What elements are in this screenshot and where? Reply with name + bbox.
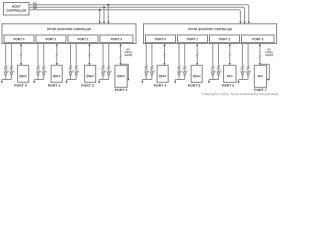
wire ground rail port 2 <box>67 79 77 81</box>
SFP module port 6 <box>224 65 236 82</box>
wire I2C bus pin port 1 <box>56 44 58 65</box>
wire SDA drop to U1 <box>103 7 105 23</box>
svg-text:CONTROL: CONTROL <box>124 54 133 57</box>
svg-text:CONTROLLER: CONTROLLER <box>6 9 26 13</box>
LED D41 <box>145 70 150 79</box>
wire I2C bus pin port 5 <box>196 44 198 65</box>
svg-text:FPC401 QUAD-PORT CONTROLLER: FPC401 QUAD-PORT CONTROLLER <box>188 27 233 31</box>
wire LED drive pin 2 port 4 <box>151 44 153 66</box>
wire LED drive pin 2 port 3 <box>108 44 110 66</box>
resistor R62 <box>217 65 219 72</box>
wire SCL bus line <box>29 5 250 24</box>
label I2C STATUS CONTROL <box>265 48 274 57</box>
wire ground rail port 7 <box>239 79 249 81</box>
resistor R51 <box>178 65 180 72</box>
QSFP module port 2 <box>85 65 96 82</box>
LED D61 <box>211 70 216 79</box>
svg-text:Copyright © 2016, Texas Instru: Copyright © 2016, Texas Instruments Inco… <box>202 92 278 96</box>
LED D72 <box>247 70 252 79</box>
port block PORT 1 of U1 <box>36 35 66 43</box>
resistor R52 <box>184 65 186 72</box>
resistor R61 <box>212 65 214 72</box>
svg-text:PORT 2: PORT 2 <box>219 37 230 41</box>
port block PORT 0 of U2 <box>146 35 176 43</box>
wire SCL drop to U1 <box>107 5 109 24</box>
resistor R22 <box>75 65 77 72</box>
svg-text:PORT 4: PORT 4 <box>154 84 167 88</box>
svg-text:PORT 2: PORT 2 <box>77 37 88 41</box>
wire INT drop to U1 <box>99 10 101 24</box>
LED D71 <box>241 70 246 79</box>
svg-text:PORT 1: PORT 1 <box>45 37 56 41</box>
svg-text:PORT 0: PORT 0 <box>14 84 27 88</box>
svg-text:PORT 2: PORT 2 <box>81 84 94 88</box>
wire LED drive pin 1 port 7 <box>241 44 243 66</box>
svg-text:QSFP: QSFP <box>193 74 201 78</box>
wire LED drive pin 1 port 2 <box>70 44 72 66</box>
junction INT node <box>99 9 101 11</box>
svg-text:PORT 1: PORT 1 <box>187 37 198 41</box>
wire LED drive pin 2 port 2 <box>75 44 77 66</box>
resistor R42 <box>151 65 153 72</box>
LED D42 <box>150 70 155 79</box>
wire LED drive pin 1 port 6 <box>212 44 214 66</box>
svg-text:QSFP: QSFP <box>117 74 125 78</box>
wire LED drive pin 1 port 3 <box>102 44 104 66</box>
wire I2C bus pin port 4 <box>163 44 165 65</box>
resistor R32 <box>108 65 110 72</box>
resistor R02 <box>10 65 12 72</box>
svg-text:PORT 3: PORT 3 <box>252 37 263 41</box>
wire ground rail port 5 <box>175 79 185 81</box>
svg-text:QSFP: QSFP <box>53 74 61 78</box>
ground arrow port 3 <box>98 80 100 84</box>
resistor R71 <box>241 65 243 72</box>
host controller U0 <box>4 3 30 16</box>
port block PORT 2 of U2 <box>210 35 240 43</box>
svg-text:QSFP: QSFP <box>159 74 167 78</box>
wire I2C bus pin port 6 <box>229 44 231 65</box>
resistor R21 <box>69 65 71 72</box>
LED D51 <box>178 70 183 79</box>
ground arrow port 4 <box>141 80 143 84</box>
wire ground rail port 6 <box>209 79 219 81</box>
svg-text:QSFP: QSFP <box>86 74 94 78</box>
wire ground rail port 0 <box>2 79 12 81</box>
wire LED drive pin 1 port 0 <box>5 44 7 66</box>
wire I2C side branch port 7 <box>260 64 269 80</box>
LED D21 <box>69 70 74 79</box>
ground arrow port 6 <box>208 80 210 84</box>
junction SDA node <box>103 6 105 8</box>
port block PORT 3 of U2 <box>242 35 275 43</box>
wire LED drive pin 2 port 7 <box>247 44 249 66</box>
LED D22 <box>75 70 80 79</box>
wire LED drive pin 1 port 1 <box>37 44 39 66</box>
QSFP module port 4 <box>157 65 168 82</box>
LED D01 <box>4 70 9 79</box>
svg-text:CONTROL: CONTROL <box>265 54 274 57</box>
ground arrow port 5 <box>174 80 176 84</box>
wire I2C bus pin port 2 <box>88 44 90 65</box>
wire I2C bus pin port 3 <box>119 44 121 65</box>
wire LED drive pin 2 port 6 <box>218 44 220 66</box>
wire LED drive pin 1 port 5 <box>178 44 180 66</box>
svg-text:INT: INT <box>33 6 37 10</box>
resistor R12 <box>43 65 45 72</box>
ground arrow port 0 <box>1 80 3 84</box>
svg-text:SFP: SFP <box>258 74 264 78</box>
QSFP module port 0 <box>18 65 29 82</box>
wire ground rail port 4 <box>142 79 152 81</box>
port block PORT 2 of U1 <box>68 35 98 43</box>
QSFP module port 3 <box>115 65 127 87</box>
wire LED drive pin 2 port 5 <box>184 44 186 66</box>
resistor R01 <box>5 65 7 72</box>
LED D02 <box>10 70 15 79</box>
LED D62 <box>217 70 222 79</box>
svg-text:PORT 0: PORT 0 <box>155 37 166 41</box>
port block PORT 0 of U1 <box>4 35 34 43</box>
wire LED drive pin 2 port 0 <box>10 44 12 66</box>
junction SCL node <box>107 4 109 6</box>
wire INT bus line <box>29 10 242 24</box>
svg-text:FPC401 QUAD-PORT CONTROLLER: FPC401 QUAD-PORT CONTROLLER <box>47 27 92 31</box>
quad port controller U1 <box>2 24 136 44</box>
wire ground rail port 3 <box>99 79 109 81</box>
port block PORT 3 of U1 <box>100 35 133 43</box>
wire LED drive pin 1 port 4 <box>145 44 147 66</box>
svg-text:PORT 3: PORT 3 <box>111 37 122 41</box>
svg-text:PORT 3: PORT 3 <box>115 88 128 92</box>
quad port controller U2 <box>144 24 277 44</box>
LED D32 <box>107 70 112 79</box>
LED D12 <box>42 70 46 79</box>
ground arrow port 7 <box>238 80 240 84</box>
wire I2C bus pin port 0 <box>20 44 22 65</box>
port block PORT 1 of U2 <box>178 35 208 43</box>
label I2C STATUS CONTROL <box>124 48 133 57</box>
LED D52 <box>183 70 188 79</box>
resistor R11 <box>37 65 39 72</box>
wire I2C bus pin port 7 <box>259 44 261 65</box>
QSFP module port 1 <box>51 65 62 82</box>
svg-text:PORT 6: PORT 6 <box>222 84 235 88</box>
QSFP module port 5 <box>191 65 202 82</box>
wire I2C side branch port 3 <box>121 64 130 80</box>
ground arrow port 1 <box>33 80 35 84</box>
svg-text:PORT 1: PORT 1 <box>48 84 61 88</box>
ground arrow port 2 <box>66 80 68 84</box>
SFP module port 7 <box>254 65 266 87</box>
wire SDA bus line <box>29 7 246 23</box>
wire ground rail port 1 <box>34 79 44 81</box>
LED D31 <box>102 70 107 79</box>
svg-text:QSFP: QSFP <box>19 74 27 78</box>
svg-text:PORT 0: PORT 0 <box>13 37 24 41</box>
resistor R41 <box>145 65 147 72</box>
resistor R72 <box>247 65 249 72</box>
resistor R31 <box>102 65 104 72</box>
svg-text:SFP: SFP <box>227 74 233 78</box>
wire LED drive pin 2 port 1 <box>43 44 45 66</box>
LED D11 <box>37 70 42 79</box>
svg-text:PORT 5: PORT 5 <box>188 84 201 88</box>
